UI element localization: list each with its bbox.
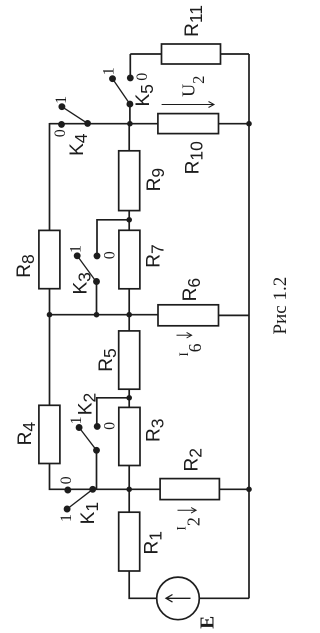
svg-text:0: 0: [52, 129, 69, 137]
svg-text:R1: R1: [141, 531, 165, 554]
wire: [96, 450, 98, 489]
wire: [129, 104, 131, 124]
svg-text:R10: R10: [182, 141, 206, 174]
switch K4: [59, 104, 91, 127]
svg-text:1: 1: [101, 67, 118, 75]
resistor R3: [119, 407, 140, 465]
wire: [199, 597, 249, 599]
node K5 bus: [127, 121, 133, 127]
svg-text:1: 1: [53, 96, 70, 104]
svg-text:R7: R7: [143, 244, 167, 267]
node R7 bus: [126, 312, 132, 318]
svg-text:K4: K4: [67, 133, 91, 156]
svg-text:1: 1: [68, 416, 85, 424]
wire K2 branch: [97, 398, 129, 427]
node R2 right rail: [246, 487, 252, 493]
switch K3: [74, 253, 99, 284]
svg-text:K2: K2: [75, 393, 99, 415]
svg-text:R3: R3: [143, 418, 167, 441]
arrow U2: [162, 102, 214, 108]
node R5 bottom: [126, 395, 132, 401]
svg-text:R8: R8: [14, 254, 38, 277]
svg-text:K1: K1: [78, 502, 102, 524]
wire: [49, 314, 51, 405]
svg-text:1: 1: [68, 245, 85, 253]
switch K1: [64, 487, 95, 512]
svg-text:R11: R11: [182, 5, 206, 37]
resistor R1: [119, 512, 140, 571]
resistor R7: [119, 230, 140, 288]
svg-text:1: 1: [58, 514, 75, 522]
wire: [128, 124, 130, 151]
wire: [128, 389, 130, 407]
node R8 bus: [47, 312, 53, 318]
resistor R6: [158, 305, 219, 326]
wire: [130, 53, 161, 55]
source E arrow: [166, 595, 191, 603]
resistor R9: [119, 151, 140, 211]
resistor R11: [162, 44, 221, 64]
svg-text:R2: R2: [181, 448, 205, 471]
wire: [128, 211, 130, 231]
svg-text:0: 0: [58, 476, 75, 484]
wire: [219, 123, 250, 125]
node K3 bus: [94, 312, 100, 318]
svg-text:R4: R4: [15, 422, 39, 446]
wire: [129, 54, 131, 78]
wire: [128, 466, 130, 513]
wire K3 branch: [97, 220, 129, 256]
svg-text:K5: K5: [133, 84, 157, 106]
resistor R10: [158, 114, 219, 134]
svg-text:0: 0: [134, 73, 151, 81]
svg-text:E: E: [198, 616, 219, 629]
source E circle: [157, 577, 200, 620]
node R9 bottom: [126, 217, 132, 223]
wire: [49, 289, 51, 316]
svg-text:R9: R9: [144, 168, 168, 191]
node R3 bottom bus: [126, 487, 132, 493]
svg-text:K3: K3: [71, 272, 95, 294]
svg-text:0: 0: [102, 422, 119, 430]
resistor R2: [160, 479, 219, 500]
svg-text:R6: R6: [180, 278, 204, 301]
svg-text:Рис 1.2: Рис 1.2: [270, 277, 291, 335]
resistor R8: [39, 230, 60, 288]
resistor R4: [39, 405, 60, 463]
svg-text:R5: R5: [96, 348, 120, 371]
wire top bus: [50, 123, 158, 125]
wire right rail: [248, 54, 250, 598]
wire: [96, 282, 98, 315]
wire: [221, 53, 250, 55]
wire mid bus: [50, 314, 159, 316]
arrow I2: [178, 508, 197, 514]
wire: [50, 464, 161, 490]
wire: [49, 123, 51, 230]
resistor R5: [119, 331, 140, 389]
switch K5: [110, 75, 133, 107]
svg-text:0: 0: [102, 251, 119, 259]
wire: [219, 488, 249, 490]
wire: [219, 314, 250, 316]
wire: [128, 289, 130, 331]
wire: [129, 571, 157, 598]
arrow I6: [177, 332, 192, 338]
node R10 right rail: [246, 121, 252, 127]
switch K2: [76, 424, 100, 454]
